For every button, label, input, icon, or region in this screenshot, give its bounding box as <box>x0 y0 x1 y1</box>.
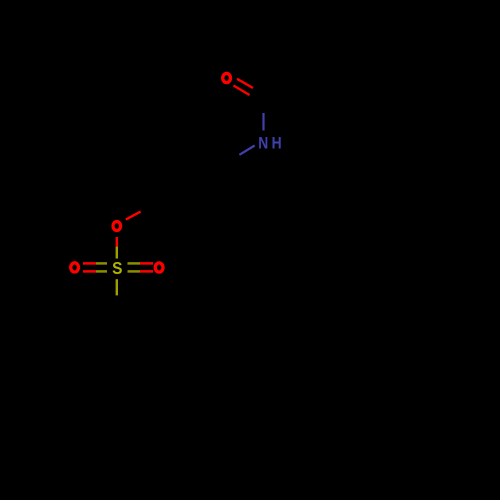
C=O double bond (O half, upper line) <box>237 79 253 88</box>
sulfonyl O3 (left) <box>71 263 79 272</box>
S=O4 double bond lower line (S half) <box>128 270 141 273</box>
ester O2 <box>113 222 121 231</box>
O2-S bond (S half) <box>116 247 118 259</box>
O2-S bond (O half) <box>116 237 118 247</box>
C=O double bond (O half, lower line) <box>234 86 250 96</box>
sulfonyl O4 (right) <box>155 263 163 272</box>
N-C(aryl) bond (N half) <box>239 146 254 155</box>
S-CH3 bond (S half) <box>116 279 118 295</box>
amide NH label <box>258 134 281 152</box>
S=O4 double bond lower line (O half) <box>140 270 153 273</box>
S=O3 double bond lower line (S half) <box>96 270 107 273</box>
S=O3 double bond upper line (O half) <box>83 262 96 265</box>
S=O4 double bond upper line (O half) <box>140 262 153 265</box>
S=O3 double bond lower line (O half) <box>83 270 96 273</box>
S=O4 double bond upper line (S half) <box>128 262 141 265</box>
O2-C(aryl) bond (O half) <box>126 212 141 220</box>
amide C-N bond (N half) <box>262 113 264 131</box>
svg-text:S: S <box>112 258 122 278</box>
svg-text:H: H <box>272 134 282 152</box>
svg-text:N: N <box>258 134 268 152</box>
S=O3 double bond upper line (S half) <box>96 262 107 265</box>
carbonyl O1 <box>223 73 231 82</box>
